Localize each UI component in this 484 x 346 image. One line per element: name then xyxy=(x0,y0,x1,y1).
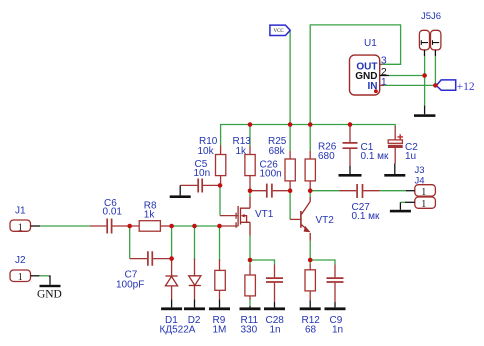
svg-text:330: 330 xyxy=(241,325,258,336)
svg-text:J4: J4 xyxy=(415,176,425,187)
U1 pin3 stub xyxy=(380,63,382,65)
U1 pin1 marker dot xyxy=(374,89,378,93)
connector J6 xyxy=(431,30,441,56)
junction R13/C26/drain node xyxy=(248,188,253,193)
ground at D2 xyxy=(184,300,205,311)
capacitor C28 plates xyxy=(266,278,283,282)
svg-text:1: 1 xyxy=(18,222,23,233)
wire: input node D1 D2 R9 xyxy=(172,225,220,227)
wire: R9 branch down xyxy=(219,226,221,261)
svg-text:68k: 68k xyxy=(269,146,286,157)
junction D1 node xyxy=(169,224,174,229)
resistor R11 body xyxy=(245,275,256,296)
ground at C1 xyxy=(339,166,362,177)
U1 pin1 stub xyxy=(380,84,384,86)
junction bus R13 node xyxy=(248,122,253,127)
wire: source node to C28 xyxy=(250,260,275,265)
capacitor C1 leads xyxy=(349,126,351,166)
svg-text:VT1: VT1 xyxy=(255,209,274,220)
svg-text:3: 3 xyxy=(381,55,387,67)
capacitor C2 polarized plates and plus xyxy=(388,134,403,148)
capacitor C2 bottom lead xyxy=(394,126,396,164)
capacitor C27 leads xyxy=(340,190,380,192)
wire: emitter node to C9 xyxy=(310,260,335,265)
svg-text:GND: GND xyxy=(37,288,62,300)
transistor VT1 dual-gate MOSFET xyxy=(220,197,251,236)
resistor R13 leads xyxy=(249,146,251,191)
diode D1 (cathode up) xyxy=(165,276,177,286)
junction GND/J5 node xyxy=(422,73,427,78)
svg-text:68: 68 xyxy=(305,325,317,336)
wire: R26 top xyxy=(309,125,311,152)
wire: J1 input xyxy=(40,225,90,227)
wire: R13 top xyxy=(249,125,251,146)
wire: C7 branch down xyxy=(129,226,131,259)
ground at C2 xyxy=(384,164,405,177)
ground at J4 xyxy=(390,202,411,212)
capacitor C7 leads xyxy=(130,258,172,260)
capacitor C28 leads xyxy=(274,265,276,302)
wire: main bus y=124.5 xyxy=(221,125,396,147)
connector J2 xyxy=(10,270,39,283)
VCC power flag xyxy=(270,25,290,35)
junction R26/C27/collector node xyxy=(308,188,313,193)
svg-text:1u: 1u xyxy=(405,151,416,162)
svg-text:0.01: 0.01 xyxy=(103,206,123,217)
wire: VCC rail down to bus xyxy=(289,31,291,125)
svg-text:1n: 1n xyxy=(270,325,281,336)
wire: VT2 collector up xyxy=(309,191,311,197)
wire stub below R11 xyxy=(249,300,251,306)
resistor R8 body xyxy=(139,221,160,232)
wire: top net from bus up over to U1 pin3 xyxy=(310,25,400,125)
svg-text:680: 680 xyxy=(318,151,335,162)
svg-text:1: 1 xyxy=(18,272,23,283)
svg-text:100n: 100n xyxy=(260,169,282,180)
capacitor C26 leads xyxy=(250,190,290,192)
ground at J5/U1 GND xyxy=(414,106,435,117)
junction R25/C26/base node xyxy=(288,188,293,193)
diode D2 leads xyxy=(194,259,196,300)
junction R9/gate node xyxy=(217,224,222,229)
svg-text:1k: 1k xyxy=(144,210,156,221)
wire: C27 line to J3 xyxy=(310,190,406,192)
resistor R9 body xyxy=(215,270,226,290)
+12 power flag xyxy=(436,80,455,90)
svg-text:J2: J2 xyxy=(15,255,26,266)
resistor R12 leads xyxy=(309,264,311,301)
junction C7/D1 node xyxy=(169,256,174,261)
resistor R13 body xyxy=(245,155,255,176)
wire: D2 branch down xyxy=(194,226,196,260)
svg-text:100pF: 100pF xyxy=(116,279,144,290)
junction C5/R10 node xyxy=(218,183,223,188)
connector J1 xyxy=(10,220,40,233)
svg-text:0.1 мк: 0.1 мк xyxy=(352,211,381,222)
wire: U1 pin1 to J6 and +12 xyxy=(384,56,438,85)
junction C7 node xyxy=(127,224,132,229)
wire: U1 pin2 to J5 ground node xyxy=(389,56,425,106)
junction bus R26 node xyxy=(308,122,313,127)
resistor R10 leads xyxy=(220,146,222,186)
svg-text:+12: +12 xyxy=(457,81,475,93)
capacitor C27 plates xyxy=(357,184,362,198)
ground at R12 xyxy=(300,301,321,311)
wire: J2 to ground xyxy=(39,275,48,277)
svg-text:0.1 мк: 0.1 мк xyxy=(361,151,390,162)
svg-text:10n: 10n xyxy=(194,168,211,179)
svg-text:1n: 1n xyxy=(332,325,343,336)
connector J5 xyxy=(419,30,429,56)
ground at R9 xyxy=(209,300,230,311)
resistor R26 body xyxy=(305,159,315,181)
wire: D1 branch down xyxy=(171,226,173,259)
wire: R25 top xyxy=(289,125,291,152)
junction bus C1 node xyxy=(348,122,353,127)
svg-text:1k: 1k xyxy=(236,146,248,157)
U1 pin2 stub xyxy=(380,75,389,77)
junction emitter/R12/C9 node xyxy=(308,258,313,263)
wire: C5 node to VT1 gate1 xyxy=(219,185,221,215)
svg-text:J3: J3 xyxy=(415,165,425,176)
ground GND at J2 xyxy=(40,276,61,287)
capacitor C5 leads xyxy=(180,184,220,186)
capacitor C9 leads xyxy=(334,265,336,302)
ground at C9 xyxy=(325,302,346,310)
svg-text:1M: 1M xyxy=(213,325,227,336)
svg-text:10k: 10k xyxy=(198,146,215,157)
diode D1 leads xyxy=(171,259,173,300)
capacitor C6 plates xyxy=(107,219,111,234)
resistor R12 body xyxy=(305,270,315,291)
junction IN/J6/+12 node xyxy=(433,83,438,88)
svg-text:1: 1 xyxy=(421,199,426,210)
svg-text:J1: J1 xyxy=(15,206,26,217)
capacitor C9 plates xyxy=(327,278,344,282)
resistor R26 leads xyxy=(309,151,311,191)
wire: VT1 drain up to R13/C26 node xyxy=(249,191,251,197)
diode D2 (cathode down) xyxy=(189,276,201,286)
junction source/R11/C28 node xyxy=(248,258,253,263)
wire: VT2 emitter down xyxy=(309,241,311,261)
svg-text:КД522А: КД522А xyxy=(160,325,196,336)
resistor R10 body xyxy=(216,155,226,176)
resistor R9 leads xyxy=(219,260,221,300)
svg-text:VT2: VT2 xyxy=(316,215,335,226)
ground at D1 xyxy=(161,300,182,311)
svg-text:IN: IN xyxy=(368,81,378,92)
END WIRES xyxy=(90,126,395,302)
resistor R25 body xyxy=(285,159,295,181)
resistor R11 leads xyxy=(249,265,251,301)
capacitor C7 plates xyxy=(148,251,152,266)
svg-text:J5J6: J5J6 xyxy=(421,11,441,22)
resistor R8 right lead xyxy=(160,225,171,227)
junction bus VCC/R25 node xyxy=(288,122,293,127)
transistor VT2 NPN xyxy=(290,197,310,241)
connector J4 xyxy=(400,197,435,210)
capacitor C26 plates xyxy=(267,184,272,198)
wire: VT2 base column xyxy=(289,191,291,220)
ground at C5 xyxy=(170,185,191,198)
capacitor C5 plates xyxy=(198,179,202,193)
svg-text:VCC: VCC xyxy=(273,29,284,34)
capacitor C6 leads xyxy=(90,225,139,227)
ground at R11 xyxy=(240,306,261,310)
connector J3 xyxy=(406,185,436,198)
ground at C28 xyxy=(264,302,285,310)
wire: VT1 source down xyxy=(249,236,251,261)
capacitor C1 plates xyxy=(343,143,358,148)
resistor R25 leads xyxy=(289,151,291,191)
IC U1 voltage regulator box xyxy=(350,55,380,95)
svg-text:U1: U1 xyxy=(364,38,377,49)
junction D2 node xyxy=(192,224,197,229)
svg-text:1: 1 xyxy=(381,76,387,88)
